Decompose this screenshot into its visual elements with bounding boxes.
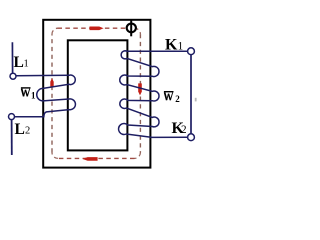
- terminal K2: [188, 134, 195, 141]
- label W2: [164, 91, 174, 100]
- flux path corner top-right: [135, 28, 141, 34]
- flux arrow right limb (pointing down): [138, 83, 142, 95]
- svg-text:2: 2: [181, 124, 187, 136]
- flux path right segment (dashed): [139, 34, 141, 152]
- winding W2 wire (secondary, around right limb): [119, 51, 188, 138]
- flux path corner bottom-right: [135, 153, 141, 159]
- lead wire from L2 down: [11, 120, 13, 155]
- stray mark right edge: [195, 98, 197, 102]
- svg-text:K: K: [165, 37, 178, 54]
- svg-text:L: L: [14, 54, 24, 71]
- flux path corner top-left: [52, 28, 58, 34]
- flux path top segment (dashed): [58, 27, 135, 29]
- flux symbol phi: [127, 19, 136, 36]
- flux arrow top (pointing right): [90, 27, 104, 31]
- lead wire from L1 up: [11, 42, 13, 73]
- flux arrow left limb (pointing up): [50, 78, 53, 87]
- label W1: [21, 87, 31, 96]
- svg-text:1: 1: [24, 59, 29, 70]
- transformer core outer boundary: [43, 20, 150, 168]
- terminal L1: [10, 73, 16, 79]
- flux path left segment (dashed): [51, 34, 53, 152]
- flux path bottom segment (dashed): [58, 157, 135, 159]
- terminal L2: [9, 114, 15, 120]
- flux path corner bottom-left: [52, 153, 58, 159]
- svg-text:2: 2: [175, 94, 180, 104]
- svg-text:1: 1: [178, 41, 184, 53]
- terminal K1: [188, 48, 195, 55]
- svg-text:L: L: [15, 121, 25, 138]
- winding W1 wire (primary, around left limb): [15, 75, 76, 117]
- svg-text:1: 1: [31, 90, 36, 100]
- svg-text:2: 2: [25, 126, 30, 137]
- wire connecting K1 to K2 (right vertical): [190, 55, 192, 134]
- flux arrow bottom (pointing left): [82, 157, 97, 161]
- transformer core window (inner boundary): [68, 40, 128, 150]
